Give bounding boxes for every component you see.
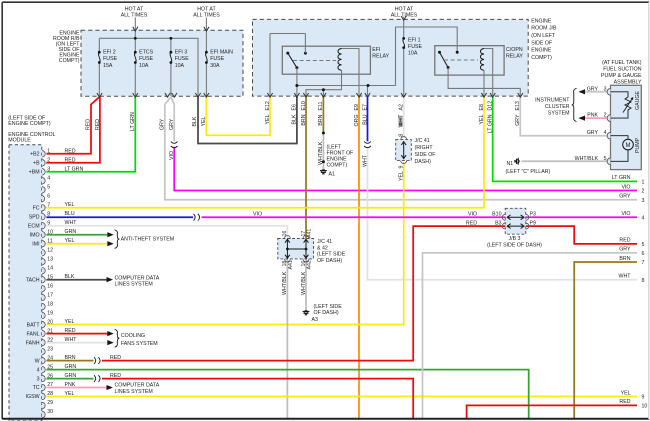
arrow to instrument cluster (PNK) <box>579 116 586 121</box>
svg-text:15: 15 <box>47 274 53 280</box>
page border frame <box>2 1 649 3</box>
svg-text:(AT FUEL TANK): (AT FUEL TANK) <box>602 60 642 66</box>
wire: EFI MAIN fuse YEL to relay E12 <box>206 96 270 135</box>
svg-text:+B2: +B2 <box>30 152 40 158</box>
svg-text:WHT: WHT <box>362 154 368 167</box>
wire: pump pin3 GRY to instrument cluster <box>580 91 611 93</box>
svg-text:W: W <box>35 358 40 364</box>
anti-theft system arrows <box>107 232 114 237</box>
svg-text:P3: P3 <box>530 212 537 218</box>
svg-text:FANL: FANL <box>26 331 39 337</box>
svg-text:BRN: BRN <box>65 355 76 361</box>
svg-text:EFI MAIN: EFI MAIN <box>210 50 233 56</box>
wire: ECM TACH BLK to computer data lines <box>46 279 106 281</box>
svg-text:10A: 10A <box>408 50 418 56</box>
fuse ETCS 10A <box>134 51 137 54</box>
wire: relay E7 BLU to inline connector <box>367 96 369 141</box>
svg-text:4: 4 <box>37 367 40 373</box>
svg-text:VIO: VIO <box>169 151 175 160</box>
svg-text:COMPUTER DATA: COMPUTER DATA <box>115 275 160 281</box>
fuse EFI 1 10A <box>402 37 405 40</box>
svg-text:VIO: VIO <box>621 211 630 217</box>
svg-text:WHT: WHT <box>65 220 78 226</box>
svg-text:GRY: GRY <box>619 194 631 200</box>
svg-text:IGSW: IGSW <box>26 394 40 400</box>
EFI relay switch-coil dashed link <box>293 60 336 62</box>
connector on E7 wire <box>364 142 371 144</box>
svg-text:ETCS: ETCS <box>139 50 154 56</box>
wire: WHT/BLK below J/C 41+42 right pin to ground A3 <box>305 258 307 310</box>
relay box: engine room J/B <box>253 19 529 96</box>
pump internal wires <box>611 136 629 162</box>
svg-text:RED: RED <box>65 157 76 163</box>
svg-text:PNK: PNK <box>587 113 598 119</box>
svg-text:BLU: BLU <box>65 211 75 217</box>
svg-text:19: 19 <box>47 310 53 316</box>
exit arrows on fuse box bottom <box>97 93 102 97</box>
wire: relay E10 BRN down to J/C 41+42 <box>305 96 307 240</box>
wire: BRN 7 from page bottom up then right to edge <box>574 262 637 418</box>
fuse EFI 3 10A <box>170 51 173 54</box>
wire: ECM FANL RED to cooling fans <box>46 333 107 335</box>
svg-text:30: 30 <box>47 409 53 415</box>
wire: ECM TC PNK to computer data lines <box>46 387 106 389</box>
svg-text:BRN: BRN <box>301 114 307 125</box>
wire: relay E9 ORG down to page bottom <box>358 96 360 418</box>
svg-text:14: 14 <box>47 265 53 271</box>
svg-text:LT GRN: LT GRN <box>612 175 631 181</box>
svg-text:2: 2 <box>47 157 50 163</box>
arrow to instrument cluster (GRY) <box>579 89 586 94</box>
svg-text:25: 25 <box>47 364 53 370</box>
wire: WHT/BLK from splice to ground A1 <box>322 133 324 169</box>
ground A1 <box>320 170 327 174</box>
svg-text:LT GRN: LT GRN <box>130 112 136 131</box>
EFI relay switch <box>288 53 297 68</box>
svg-text:(RIGHT: (RIGHT <box>415 145 434 151</box>
svg-text:BLU: BLU <box>362 114 368 124</box>
svg-text:LT GRN: LT GRN <box>488 114 494 133</box>
wire: EFI3 fuse GRY left branch to GRY 3 right edge <box>165 97 637 200</box>
svg-text:D12: D12 <box>488 101 494 111</box>
svg-text:ALL TIMES: ALL TIMES <box>121 12 148 18</box>
connector on pin26 wire <box>94 375 96 382</box>
svg-text:3: 3 <box>604 86 607 92</box>
svg-text:15A: 15A <box>103 63 113 69</box>
svg-text:E8: E8 <box>479 104 485 111</box>
entry arrows on fuse box top <box>133 27 138 31</box>
svg-text:VIO: VIO <box>621 184 630 190</box>
svg-text:EFI: EFI <box>372 47 380 53</box>
svg-text:24: 24 <box>47 355 53 361</box>
svg-text:WHT: WHT <box>619 274 632 280</box>
svg-text:P9: P9 <box>530 220 537 226</box>
svg-text:4: 4 <box>642 216 645 222</box>
svg-text:3: 3 <box>642 198 645 204</box>
J/C 41 connector <box>396 140 412 161</box>
svg-text:FC: FC <box>33 205 40 211</box>
svg-text:ALL TIMES: ALL TIMES <box>391 12 418 18</box>
svg-text:11: 11 <box>47 238 53 244</box>
svg-text:(LEFT "C" PILLAR): (LEFT "C" PILLAR) <box>506 169 551 175</box>
svg-text:RED: RED <box>110 373 121 379</box>
svg-text:MODULE: MODULE <box>8 138 31 144</box>
svg-text:8: 8 <box>642 278 645 284</box>
svg-text:BRN: BRN <box>318 114 324 125</box>
connector on EFI3 VIO wire <box>171 142 178 144</box>
gauge (variable resistor) <box>611 92 633 118</box>
wire: ECM W BRN to inline connector <box>46 360 93 362</box>
svg-text:B10: B10 <box>492 212 501 218</box>
wire: pump pin2 PNK to instrument cluster <box>580 117 611 119</box>
svg-text:29: 29 <box>47 400 53 406</box>
ECM box <box>9 145 42 421</box>
svg-text:BATT: BATT <box>27 322 41 328</box>
fuse box: engine room R/B <box>81 30 243 96</box>
svg-text:WHT: WHT <box>399 115 405 128</box>
wire: pump pin5 WHT/BLK to ground N1 <box>522 160 611 162</box>
svg-text:GRY: GRY <box>169 118 175 130</box>
svg-text:OF DASH): OF DASH) <box>314 310 339 316</box>
svg-text:E12: E12 <box>265 101 271 110</box>
wire: RED 10 from page bottom up then right to edge <box>467 405 637 418</box>
J/B 3 connector <box>505 208 526 234</box>
svg-text:12: 12 <box>47 247 53 253</box>
svg-text:EFI 2: EFI 2 <box>103 50 116 56</box>
svg-text:2: 2 <box>642 189 645 195</box>
svg-text:A3: A3 <box>312 317 319 323</box>
svg-text:FUSE: FUSE <box>210 56 225 62</box>
svg-text:ENGINE: ENGINE <box>531 48 552 54</box>
svg-text:ORG: ORG <box>354 115 360 127</box>
svg-text:E7: E7 <box>362 104 368 111</box>
svg-text:FUSE: FUSE <box>408 44 423 50</box>
svg-text:C/OPN: C/OPN <box>506 47 523 53</box>
wire: ETCS fuse to ECM +BM LT GRN <box>46 97 135 172</box>
svg-text:27: 27 <box>47 382 53 388</box>
wire: VIO from connector to right edge 4 through J/B 3 <box>202 216 506 218</box>
wire: ECM SPD BLU to inline connector <box>46 216 193 218</box>
svg-text:RED: RED <box>619 238 630 244</box>
wire: YEL from J/C 41 down then left to ECM BATT <box>46 162 403 325</box>
fuse box bus <box>99 18 206 97</box>
svg-text:IMI: IMI <box>32 241 39 247</box>
svg-text:A41: A41 <box>288 260 294 269</box>
svg-text:RED: RED <box>86 119 92 130</box>
splice dot on E11 wire bottom <box>322 160 325 163</box>
svg-text:YEL: YEL <box>65 391 75 397</box>
ECM pin bumps <box>42 151 45 157</box>
svg-text:BLK: BLK <box>292 114 298 124</box>
svg-text:30A: 30A <box>210 63 220 69</box>
svg-text:SPD: SPD <box>29 214 40 220</box>
svg-text:DASH): DASH) <box>415 159 432 165</box>
svg-text:YEL: YEL <box>621 390 631 396</box>
wire: VIO below connector to VIO 2 right edge <box>174 147 637 191</box>
svg-text:10: 10 <box>642 404 648 410</box>
svg-text:YEL: YEL <box>65 319 75 325</box>
svg-text:IMO: IMO <box>30 232 40 238</box>
svg-text:26: 26 <box>47 373 53 379</box>
svg-text:LINES SYSTEM: LINES SYSTEM <box>115 389 153 395</box>
C/OPN switch-coil dashed link <box>444 59 478 61</box>
svg-text:GRY: GRY <box>515 114 521 126</box>
svg-text:FUEL SUCTION: FUEL SUCTION <box>603 67 642 73</box>
svg-text:BRN: BRN <box>619 256 630 262</box>
computer data lines arrow (TACH) <box>107 277 114 282</box>
svg-text:ECM: ECM <box>28 223 40 229</box>
svg-text:16: 16 <box>47 283 53 289</box>
svg-text:EFI 3: EFI 3 <box>175 50 188 56</box>
pump box pins <box>607 88 610 95</box>
wire: WHT/BLK below J/C 41+42 left pin to page bottom <box>286 258 288 418</box>
svg-text:8: 8 <box>47 211 50 217</box>
svg-text:22: 22 <box>47 337 53 343</box>
svg-text:TACH: TACH <box>26 277 40 283</box>
svg-text:CLUSTER: CLUSTER <box>545 104 570 110</box>
svg-text:8: 8 <box>399 134 405 137</box>
svg-text:YEL: YEL <box>65 202 75 208</box>
svg-text:YEL: YEL <box>65 238 75 244</box>
svg-text:5: 5 <box>642 242 645 248</box>
svg-text:23: 23 <box>47 346 53 352</box>
wire: RED from pin26 connector right then down to page bottom <box>102 379 413 418</box>
svg-text:E6: E6 <box>292 104 298 111</box>
svg-text:YEL: YEL <box>479 114 485 124</box>
connector on W wire <box>94 357 96 364</box>
svg-text:BLK: BLK <box>192 116 198 126</box>
svg-text:FANH: FANH <box>26 340 40 346</box>
svg-text:A1: A1 <box>329 171 336 177</box>
svg-text:PUMP & GAUGE: PUMP & GAUGE <box>601 73 642 79</box>
cooling fans arrows <box>107 331 114 336</box>
svg-text:RELAY: RELAY <box>506 54 523 60</box>
svg-text:ROOM J/B: ROOM J/B <box>531 26 557 32</box>
svg-text:VIO: VIO <box>468 212 477 218</box>
svg-text:RELAY: RELAY <box>372 54 389 60</box>
svg-text:COMPT): COMPT) <box>59 58 80 64</box>
svg-text:RED: RED <box>65 328 76 334</box>
svg-text:E9: E9 <box>354 104 360 111</box>
fuse EFI 2 15A <box>98 51 101 54</box>
svg-text:GRN: GRN <box>65 364 77 370</box>
svg-text:9: 9 <box>399 166 405 169</box>
svg-text:WHT/BLK: WHT/BLK <box>301 271 307 295</box>
svg-text:20: 20 <box>47 319 53 325</box>
wire: EFI2 fuse to ECM +B RED <box>46 97 100 163</box>
ground N1 <box>515 158 519 165</box>
svg-text:WHT: WHT <box>65 337 78 343</box>
svg-text:A42: A42 <box>307 260 313 269</box>
svg-text:PNK: PNK <box>65 382 76 388</box>
svg-text:WHT/BLK: WHT/BLK <box>282 271 288 295</box>
svg-text:& 42: & 42 <box>317 245 328 251</box>
svg-text:6: 6 <box>47 193 50 199</box>
svg-text:FUSE: FUSE <box>103 56 118 62</box>
svg-text:10A: 10A <box>139 63 149 69</box>
svg-text:COMPT): COMPT) <box>531 55 552 61</box>
svg-text:2: 2 <box>604 113 607 119</box>
svg-text:TC: TC <box>33 385 40 391</box>
svg-text:BLK: BLK <box>65 274 75 280</box>
pump motor <box>623 139 634 150</box>
svg-text:3: 3 <box>47 166 50 172</box>
entry arrow relay box top <box>401 16 406 20</box>
svg-text:ENGINE: ENGINE <box>531 18 552 24</box>
svg-text:5: 5 <box>604 156 607 162</box>
svg-text:A41: A41 <box>307 229 313 238</box>
wire: relay E8 YEL down then left to ECM FC <box>46 96 484 208</box>
svg-text:GRY: GRY <box>619 247 631 253</box>
EFI relay internal wiring <box>270 17 457 96</box>
fuse EFI MAIN 30A <box>205 51 208 54</box>
C/OPN relay switch <box>440 52 449 67</box>
svg-text:WHT/BLK: WHT/BLK <box>318 141 324 165</box>
svg-text:RED: RED <box>619 399 630 405</box>
computer data lines arrow (TC) <box>107 385 114 390</box>
svg-text:FUSE: FUSE <box>139 56 154 62</box>
wire: relay D12 LT GRN down then right to edge 1 <box>493 96 637 181</box>
svg-text:SIDE OF: SIDE OF <box>415 152 436 158</box>
svg-text:J/C 41: J/C 41 <box>317 239 332 245</box>
wire: GRY 6 from page bottom up then right to edge <box>423 253 638 418</box>
svg-text:N1: N1 <box>506 161 513 167</box>
svg-text:J/C 41: J/C 41 <box>415 138 430 144</box>
svg-text:E11: E11 <box>318 101 324 110</box>
svg-text:COOLING: COOLING <box>121 333 145 339</box>
svg-text:LINES SYSTEM: LINES SYSTEM <box>115 282 153 288</box>
svg-text:SYSTEM: SYSTEM <box>548 110 570 116</box>
C/OPN relay box <box>435 46 504 75</box>
svg-text:J/B 3: J/B 3 <box>509 236 521 242</box>
svg-text:28: 28 <box>47 391 53 397</box>
wire: ECM IMO GRN to anti-theft <box>46 234 107 236</box>
svg-text:E10: E10 <box>301 101 307 110</box>
wire: WHT from connector down and right to WHT 8 edge <box>368 147 638 280</box>
svg-text:GRN: GRN <box>65 229 77 235</box>
svg-text:COMPT): COMPT) <box>327 163 348 169</box>
svg-text:B3: B3 <box>495 220 502 226</box>
svg-text:VIO: VIO <box>253 212 262 218</box>
svg-text:GAUGE: GAUGE <box>635 91 641 110</box>
svg-text:9: 9 <box>642 395 645 401</box>
wire: EFI2 fuse to ECM +B2 RED <box>46 97 99 154</box>
svg-text:RED: RED <box>466 220 477 226</box>
exit arrows on relay box bottom <box>267 93 272 97</box>
svg-text:17: 17 <box>47 292 53 298</box>
svg-text:M: M <box>626 143 631 149</box>
svg-text:RED: RED <box>110 355 121 361</box>
wire: ECM pin25 GRN right then down to page bottom <box>46 370 528 418</box>
wire: RED from W connector right then up to J/B 3 B3 and edge 5 <box>102 226 505 361</box>
svg-text:+BM: +BM <box>29 169 40 175</box>
wire: ECM pin26 GRN to inline connector <box>46 378 93 380</box>
wire: ECM IGSW YEL to right edge 9 <box>46 396 637 398</box>
wire: fusebox bus BLK output to relay E6 <box>198 96 297 144</box>
instrument cluster brace <box>572 88 577 121</box>
svg-text:YEL: YEL <box>265 114 271 124</box>
svg-text:FUSE: FUSE <box>175 56 190 62</box>
svg-text:ANTI-THEFT SYSTEM: ANTI-THEFT SYSTEM <box>121 236 175 242</box>
svg-text:RED: RED <box>65 148 76 154</box>
connector on SPD wire <box>194 214 196 221</box>
svg-text:5: 5 <box>47 184 50 190</box>
svg-text:(LEFT SIDE: (LEFT SIDE <box>317 252 346 258</box>
EFI relay coil <box>338 49 342 71</box>
svg-text:7: 7 <box>47 202 50 208</box>
J/C 41 and 42 connector <box>278 239 314 259</box>
wire: relay E11 BRN down to splice <box>322 96 324 133</box>
svg-text:YEL: YEL <box>201 116 207 126</box>
svg-text:3: 3 <box>37 376 40 382</box>
svg-text:4: 4 <box>604 130 607 136</box>
wire: ECM FANH WHT to cooling fans <box>46 342 107 344</box>
svg-text:COMPUTER DATA: COMPUTER DATA <box>115 383 160 389</box>
svg-text:INSTRUMENT: INSTRUMENT <box>535 97 570 103</box>
C/OPN relay coil <box>480 49 484 71</box>
svg-text:YEL: YEL <box>399 171 405 181</box>
svg-text:+B: +B <box>33 160 40 166</box>
svg-text:21: 21 <box>47 328 53 334</box>
svg-text:E13: E13 <box>515 101 521 110</box>
svg-text:PUMP: PUMP <box>635 137 641 153</box>
svg-text:RED: RED <box>95 119 101 130</box>
svg-text:10: 10 <box>47 229 53 235</box>
svg-text:OF DASH): OF DASH) <box>317 258 342 264</box>
svg-text:LT GRN: LT GRN <box>65 166 84 172</box>
svg-text:EFI 1: EFI 1 <box>408 38 421 44</box>
bus junction dots <box>134 37 137 40</box>
svg-text:10A: 10A <box>175 63 185 69</box>
svg-text:(LEFT SIDE OF DASH): (LEFT SIDE OF DASH) <box>487 243 542 249</box>
svg-text:ALL TIMES: ALL TIMES <box>193 12 220 18</box>
wire: relay A2 WHT down to J/C 41 <box>403 96 405 138</box>
wire: ECM IMI YEL to anti-theft <box>46 243 107 245</box>
svg-text:ENGINE COMPT): ENGINE COMPT) <box>8 121 51 127</box>
svg-text:GRY: GRY <box>160 118 166 130</box>
ground A3 <box>303 310 310 314</box>
svg-text:18: 18 <box>47 301 53 307</box>
EFI relay box <box>282 46 370 74</box>
svg-text:GRY: GRY <box>587 130 599 136</box>
svg-text:ASSEMBLY: ASSEMBLY <box>614 80 642 86</box>
svg-text:16: 16 <box>282 231 288 237</box>
svg-text:9: 9 <box>47 220 50 226</box>
svg-text:4: 4 <box>47 175 50 181</box>
svg-text:FANS SYSTEM: FANS SYSTEM <box>121 341 158 347</box>
svg-text:1: 1 <box>47 149 50 155</box>
svg-text:A2: A2 <box>399 104 405 111</box>
fuel pump and gauge assembly box <box>611 85 642 169</box>
wire: ECM pin9 WHT right then down into J/C 41+42 <box>46 226 287 240</box>
svg-text:WHT/BLK: WHT/BLK <box>575 156 599 162</box>
svg-text:13: 13 <box>47 256 53 262</box>
svg-text:SIDE OF: SIDE OF <box>531 40 552 46</box>
wire: EFI3 fuse GRY right branch to inline connector <box>171 97 174 142</box>
svg-text:GRY: GRY <box>587 86 599 92</box>
svg-text:1: 1 <box>642 180 645 186</box>
C/OPN relay internal wiring <box>448 49 520 97</box>
svg-text:6: 6 <box>642 251 645 257</box>
svg-text:GRN: GRN <box>65 373 77 379</box>
svg-text:(ON LEFT: (ON LEFT <box>531 33 556 39</box>
wire: relay E13 GRY down then right to pump pin 4 <box>520 96 610 136</box>
svg-text:7: 7 <box>642 260 645 266</box>
splice dot on E11 wire top <box>322 132 325 135</box>
